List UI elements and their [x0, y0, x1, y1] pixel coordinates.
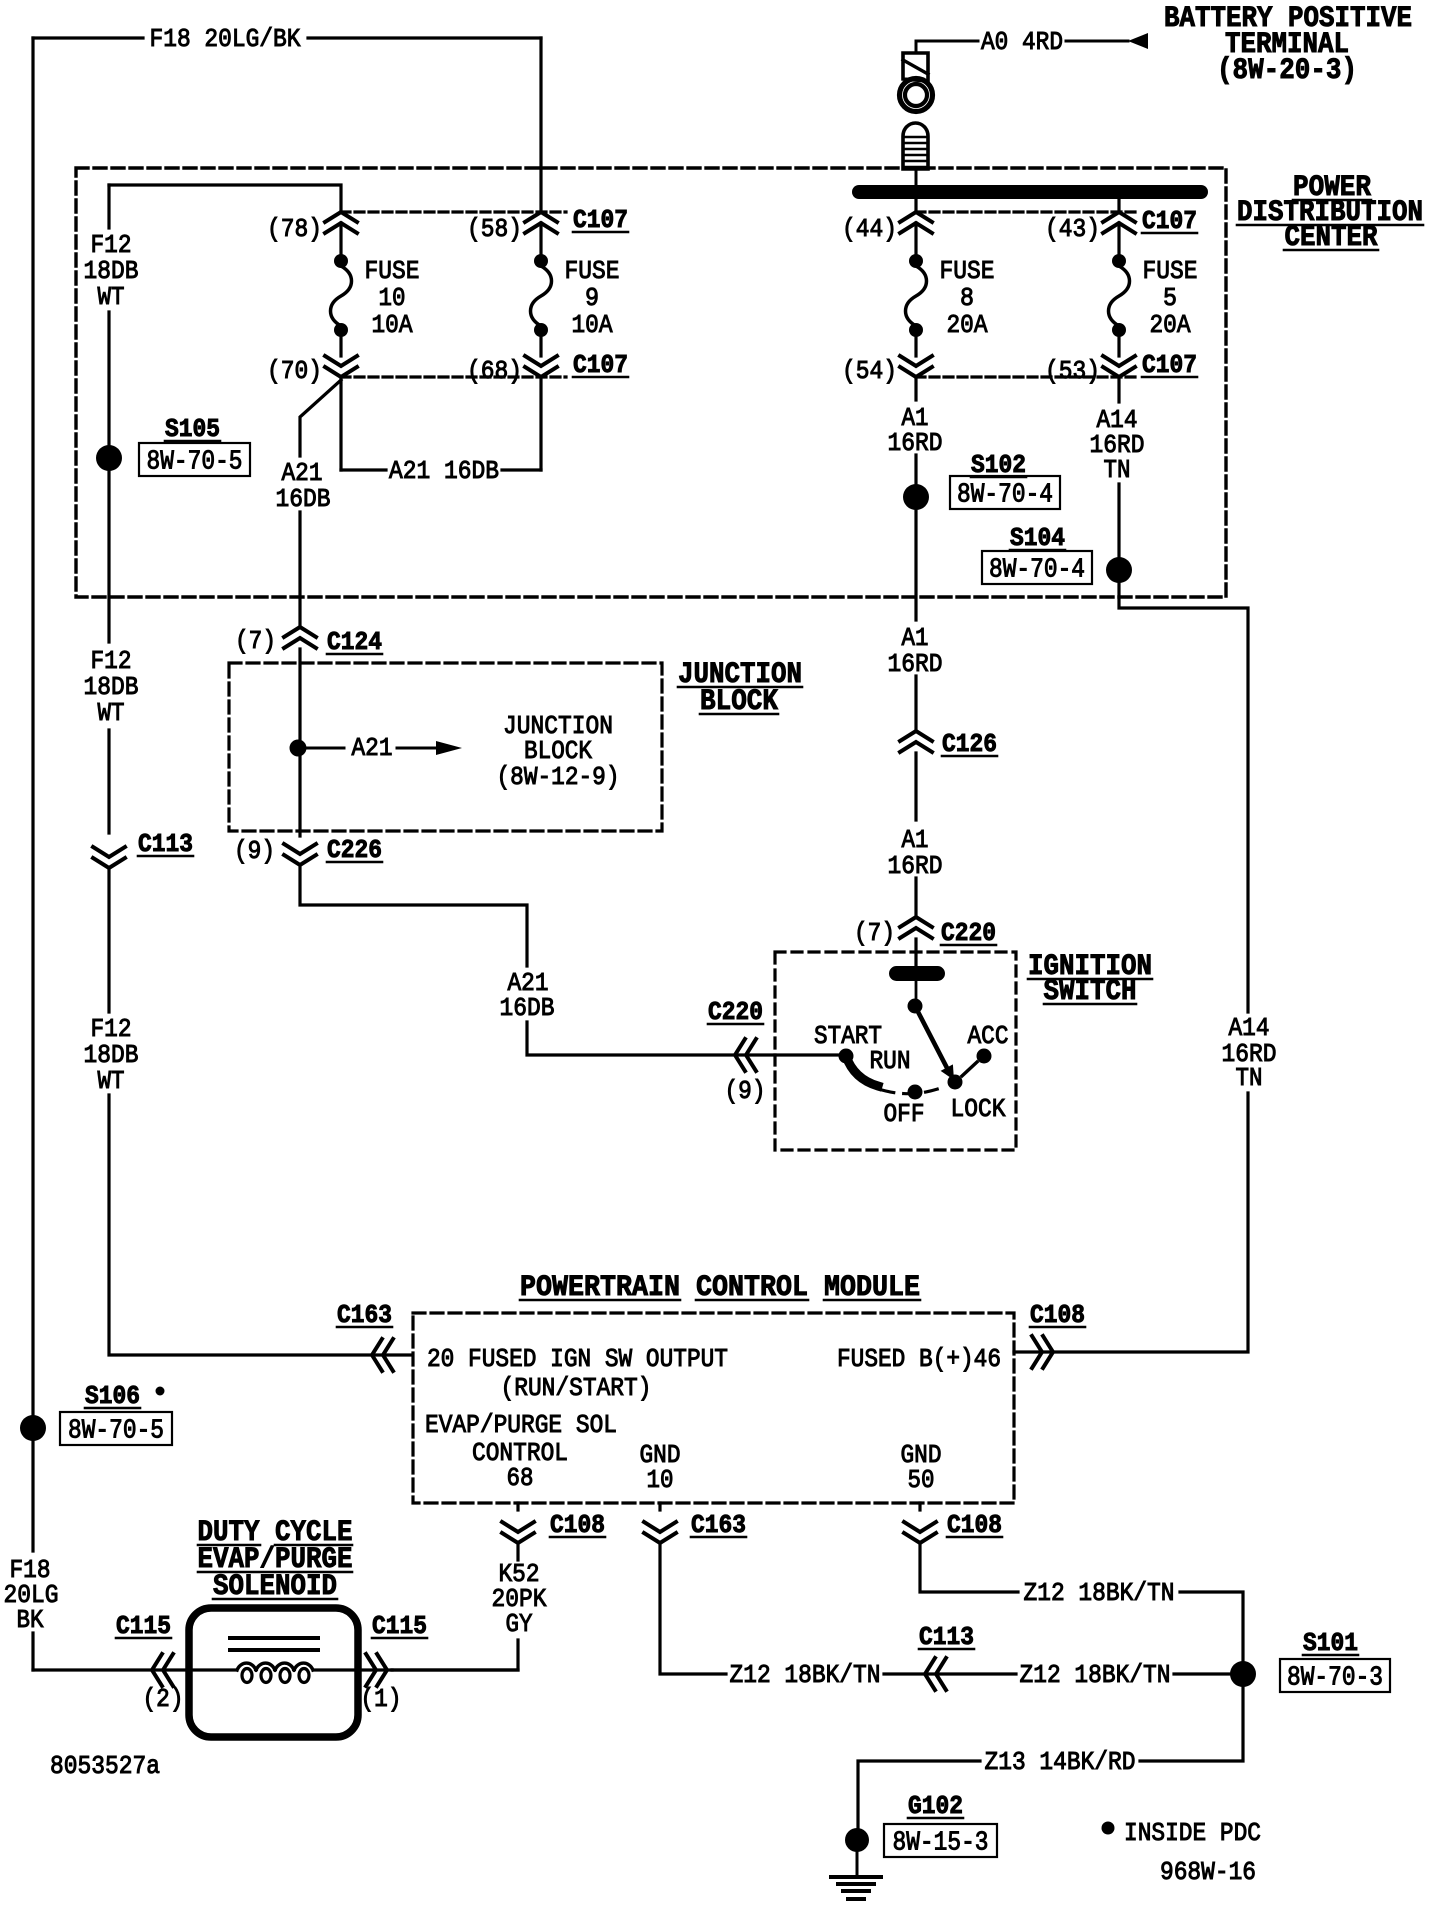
svg-text:F18 20LG/BK: F18 20LG/BK [150, 24, 301, 54]
wire Z12 to splice S101 [1180, 1592, 1243, 1674]
ignition switch LOCK contact [948, 1075, 963, 1090]
svg-text:968W-16: 968W-16 [1160, 1857, 1256, 1887]
svg-text:C163: C163 [337, 1300, 392, 1330]
wire A21 ignition feed lower [527, 1022, 846, 1055]
wire A21 to ignition switch run [300, 868, 527, 966]
svg-text:C226: C226 [327, 835, 382, 865]
svg-text:(7): (7) [854, 918, 895, 948]
svg-text:10: 10 [647, 1465, 674, 1495]
svg-text:G102: G102 [908, 1791, 963, 1821]
connector C107 dashed boundary (right pair) [916, 210, 1136, 213]
connector C163 PCM pin 20 [372, 1339, 382, 1371]
connector C220 cavity (9) horizontal [735, 1039, 745, 1071]
ignition switch dashed box [775, 952, 1016, 1150]
ignition switch wiper contact arc [846, 1056, 878, 1086]
wire F18 vertical left trunk [31, 38, 34, 1551]
svg-text:S104: S104 [1010, 523, 1065, 553]
wire A21 to junction block [298, 512, 301, 627]
ignition switch detent arc dashed [882, 1086, 946, 1094]
wire Z13 to ground [858, 1761, 980, 1828]
connector C226 cavity (9) [284, 855, 316, 865]
svg-text:10A: 10A [572, 310, 613, 340]
fuse 5 20A element [1112, 254, 1126, 268]
powertrain control module dashed box [413, 1313, 1014, 1503]
svg-text:(54): (54) [842, 356, 897, 386]
connector C107 cavity (53) [1103, 367, 1135, 377]
svg-text:20A: 20A [1150, 310, 1191, 340]
svg-text:C107: C107 [1142, 206, 1197, 236]
splice S101 [1230, 1661, 1256, 1687]
arrow to junction block reference [436, 741, 462, 755]
svg-text:8W-70-4: 8W-70-4 [957, 481, 1053, 511]
splice S106 [20, 1415, 46, 1441]
wire A1 to ignition switch [914, 878, 917, 917]
svg-text:Z12 18BK/TN: Z12 18BK/TN [1024, 1578, 1175, 1608]
wire A14 to PCM C108 [1014, 1093, 1248, 1352]
svg-text:5: 5 [1163, 283, 1177, 313]
svg-text:(8W-20-3): (8W-20-3) [1217, 54, 1357, 88]
connector C163 below pin 10 [644, 1533, 676, 1543]
wire F12 to PCM C163 [109, 1095, 412, 1355]
svg-text:C163: C163 [691, 1510, 746, 1540]
wire A14 fuse 5 to S104 [1117, 377, 1120, 402]
svg-text:20A: 20A [947, 310, 988, 340]
svg-text:9: 9 [585, 283, 599, 313]
wire F18 20LG/BK top horizontal [33, 36, 143, 39]
svg-text:8W-15-3: 8W-15-3 [893, 1829, 989, 1859]
ignition switch ACC-LOCK link [962, 1062, 977, 1076]
svg-text:(7): (7) [235, 626, 276, 656]
ground symbol G102 [856, 1852, 859, 1877]
svg-text:(1): (1) [361, 1684, 402, 1714]
connector C108 PCM pin 46 [1043, 1336, 1053, 1368]
svg-text:LOCK: LOCK [951, 1094, 1006, 1124]
svg-text:(44): (44) [842, 214, 897, 244]
svg-text:C220: C220 [941, 918, 996, 948]
connector C107 cavity (78) [325, 212, 357, 222]
svg-text:8: 8 [960, 283, 974, 313]
svg-text:FUSE: FUSE [365, 256, 420, 286]
connector C107 cavity (58) [525, 212, 557, 222]
svg-text:A21: A21 [352, 733, 393, 763]
svg-text:C113: C113 [919, 1622, 974, 1652]
svg-text:WT: WT [98, 1066, 125, 1096]
wire A14 jog below PDC [1119, 570, 1248, 1012]
battery feed stud [903, 123, 928, 169]
connector C113 in-line ground [925, 1658, 935, 1690]
svg-text:C108: C108 [1030, 1300, 1085, 1330]
svg-text:WT: WT [98, 282, 125, 312]
svg-text:GY: GY [506, 1609, 533, 1639]
svg-text:S106: S106 [85, 1381, 140, 1411]
svg-text:C220: C220 [708, 997, 763, 1027]
connector C107 cavity (68) [525, 367, 557, 377]
wire bus bar drop to fuse 5 [1117, 199, 1120, 212]
wire A1 to S102 [914, 455, 917, 485]
wire A1 to C126 [914, 676, 917, 731]
connector C107 cavity (54) [900, 367, 932, 377]
svg-text:FUSE: FUSE [565, 256, 620, 286]
svg-text:Z12 18BK/TN: Z12 18BK/TN [1020, 1660, 1171, 1690]
svg-text:OFF: OFF [884, 1099, 925, 1129]
wire K52 from PCM pin 68 [516, 1503, 519, 1510]
ignition switch OFF contact [908, 1085, 923, 1100]
fuse 9 10A element [534, 254, 548, 268]
connector C124 cavity (7) [284, 627, 316, 637]
svg-text:INSIDE PDC: INSIDE PDC [1124, 1818, 1261, 1848]
wire A1 below C126 [914, 753, 917, 820]
duty cycle evap/purge solenoid body [189, 1608, 358, 1737]
connector C108 below pin 50 [904, 1533, 936, 1543]
ignition switch ACC contact [977, 1049, 992, 1064]
connector C107 cavity (44) [900, 212, 932, 222]
svg-text:C113: C113 [138, 829, 193, 859]
battery terminal crimp [903, 53, 928, 81]
svg-text:8053527a: 8053527a [50, 1751, 160, 1781]
wire F18 to solenoid [33, 1668, 237, 1671]
connector C107 dashed boundary (left pair) [341, 210, 566, 213]
connector C113 in-line on F12 [93, 858, 125, 868]
battery ring terminal [900, 79, 933, 112]
svg-text:(70): (70) [267, 356, 322, 386]
svg-text:16DB: 16DB [276, 484, 331, 514]
svg-text:68: 68 [507, 1463, 534, 1493]
power distribution center dashed box [76, 168, 1226, 597]
svg-text:C124: C124 [327, 627, 382, 657]
svg-text:C107: C107 [1142, 350, 1197, 380]
svg-text:20 FUSED IGN SW OUTPUT: 20 FUSED IGN SW OUTPUT [427, 1344, 728, 1374]
off-page arrow to battery positive terminal [1128, 33, 1148, 49]
connector C115 cavity (1) [377, 1654, 387, 1686]
ignition switch rotor pivot [915, 981, 918, 1000]
svg-text:(53): (53) [1045, 356, 1100, 386]
svg-text:Z13 14BK/RD: Z13 14BK/RD [985, 1747, 1136, 1777]
splice S102 [903, 484, 929, 510]
svg-text:C108: C108 [947, 1510, 1002, 1540]
svg-text:C115: C115 [372, 1611, 427, 1641]
svg-text:(43): (43) [1045, 214, 1100, 244]
svg-text:C108: C108 [550, 1510, 605, 1540]
svg-text:WT: WT [98, 698, 125, 728]
connector C108 below pin 68 [502, 1533, 534, 1543]
wire Z12 ground run [660, 1545, 726, 1674]
wire A21 through junction block [298, 649, 301, 836]
svg-text:8W-70-3: 8W-70-3 [1287, 1664, 1383, 1694]
svg-text:(RUN/START): (RUN/START) [501, 1373, 652, 1403]
wire Z12 upper ground run [920, 1545, 1018, 1592]
connector C220 cavity (7) [900, 917, 932, 927]
svg-text:(8W-12-9): (8W-12-9) [497, 762, 620, 792]
svg-text:TN: TN [1236, 1063, 1263, 1093]
wire Z12 from PCM pin 10 [658, 1503, 661, 1510]
junction block dashed box [229, 663, 662, 831]
svg-text:(78): (78) [267, 214, 322, 244]
ignition switch START contact [839, 1049, 854, 1064]
wire Z13 from S101 [1140, 1674, 1243, 1761]
svg-text:TN: TN [1104, 455, 1131, 485]
svg-text:Z12 18BK/TN: Z12 18BK/TN [730, 1660, 881, 1690]
svg-text:8W-70-5: 8W-70-5 [68, 1417, 164, 1447]
svg-text:16DB: 16DB [500, 993, 555, 1023]
connector C126 in-line [900, 731, 932, 741]
svg-text:A0 4RD: A0 4RD [981, 27, 1063, 57]
wire F12 vertical [107, 185, 110, 228]
svg-text:C107: C107 [573, 350, 628, 380]
connector C115 cavity (2) [152, 1654, 162, 1686]
wire A1 16RD below fuse 8 [914, 377, 917, 400]
svg-text:FUSE: FUSE [1143, 256, 1198, 286]
svg-text:(9): (9) [725, 1076, 766, 1106]
wire solenoid to K52 [392, 1668, 518, 1671]
svg-text:BK: BK [17, 1605, 44, 1635]
ignition switch contact bar [889, 966, 945, 981]
svg-text:(68): (68) [467, 356, 522, 386]
ignition switch rotor arm [915, 1006, 946, 1066]
solenoid coil [237, 1663, 256, 1670]
wire K52 to solenoid [392, 1640, 518, 1670]
svg-text:10: 10 [379, 283, 406, 313]
svg-text:C126: C126 [942, 729, 997, 759]
wire A21 16DB fuse output tie [339, 377, 342, 470]
svg-text:FUSE: FUSE [940, 256, 995, 286]
svg-text:S105: S105 [165, 414, 220, 444]
ground G102 splice [845, 1828, 869, 1852]
junction block internal tap [290, 740, 307, 757]
wire A21 takeoff diagonal [300, 380, 341, 456]
wire F12 below C113 [107, 870, 110, 1012]
svg-text:S101: S101 [1303, 1628, 1358, 1658]
svg-text:FUSED B(+)46: FUSED B(+)46 [837, 1344, 1001, 1374]
wire F18 drop to fuse 9 [539, 38, 542, 212]
svg-text:C107: C107 [573, 205, 628, 235]
svg-text:C115: C115 [116, 1611, 171, 1641]
svg-text:(9): (9) [234, 836, 275, 866]
wire F12 top link to fuse 10 [109, 185, 341, 212]
bus bar B+ [852, 185, 1208, 199]
connector C107 cavity (70) [325, 367, 357, 377]
svg-text:(58): (58) [467, 214, 522, 244]
wire A0 4RD [915, 41, 918, 53]
splice S105 [96, 445, 122, 471]
svg-text:ACC: ACC [968, 1021, 1009, 1051]
wire bus bar drop to fuse 8 [914, 199, 917, 212]
svg-text:50: 50 [908, 1465, 935, 1495]
connector C107 cavity (43) [1103, 212, 1135, 222]
wire Z12 from PCM pin 50 [918, 1503, 921, 1510]
solenoid core lines [230, 1636, 318, 1640]
svg-text:RUN: RUN [870, 1046, 911, 1076]
svg-text:10A: 10A [372, 310, 413, 340]
fuse 8 20A element [909, 254, 923, 268]
svg-text:(2): (2) [143, 1684, 184, 1714]
fuse 10 10A element [334, 254, 348, 268]
wire A1 below S102 [914, 497, 917, 620]
svg-text:8W-70-4: 8W-70-4 [989, 556, 1085, 586]
note INSIDE PDC [1102, 1822, 1115, 1835]
svg-text:8W-70-5: 8W-70-5 [147, 448, 243, 478]
svg-text:EVAP/PURGE SOL: EVAP/PURGE SOL [425, 1410, 617, 1440]
svg-text:A21 16DB: A21 16DB [389, 456, 499, 486]
